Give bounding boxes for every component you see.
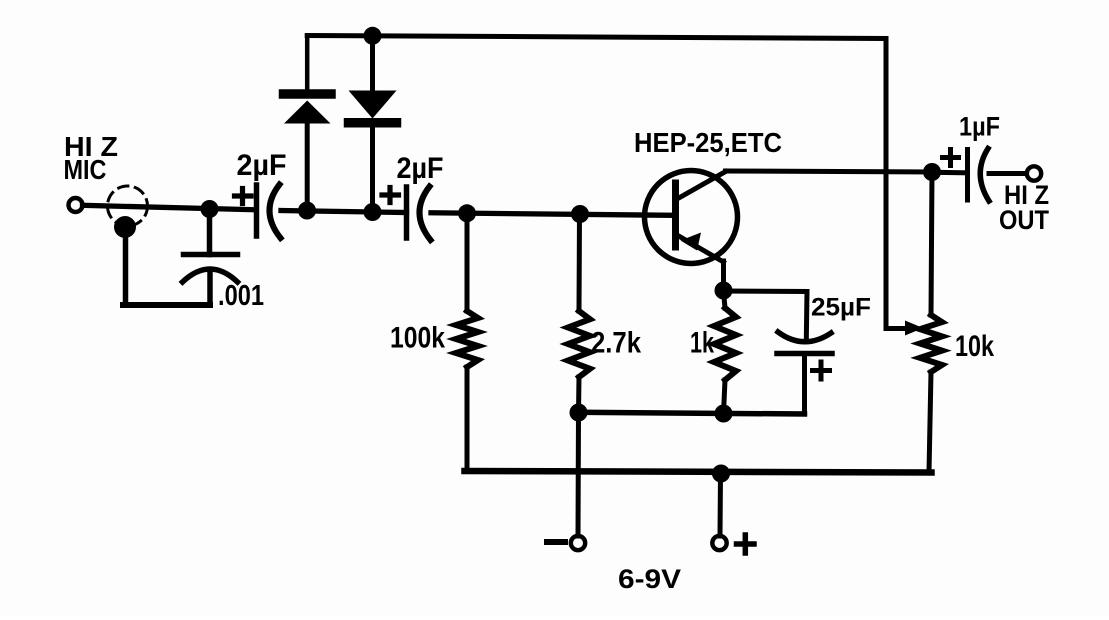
- wire: diode D1 anode lead: [305, 122, 310, 210]
- wire: C1 to C3 through diode nodes: [281, 211, 407, 213]
- label minus sign: [547, 539, 565, 545]
- wire: node F down to pot top: [931, 172, 932, 315]
- transistor Q1 base bar: [672, 183, 679, 247]
- wire: node F to C5: [932, 170, 968, 176]
- wire: node H2 down to minus terminal: [576, 413, 582, 536]
- capacitor C4 (25uF) straight plate: [777, 351, 832, 357]
- node F junction dot (collector output): [923, 163, 941, 181]
- polarity + of C3: [382, 188, 399, 203]
- svg-text:OUT: OUT: [999, 205, 1049, 235]
- node: HI Z OUT terminal: [1027, 166, 1041, 180]
- potentiometer R4 (10k) zigzag body: [920, 315, 942, 372]
- wire: node I down to plus terminal: [718, 474, 724, 537]
- svg-text:10k: 10k: [955, 330, 994, 363]
- svg-text:HEP-25,ETC: HEP-25,ETC: [634, 127, 782, 158]
- resistor R1 (100k) lower lead: [465, 367, 470, 469]
- polarity + of C1: [235, 189, 252, 204]
- svg-text:100k: 100k: [390, 322, 445, 355]
- capacitor C1 (2uF) straight plate: [254, 185, 260, 236]
- resistor R1 (100k) upper lead: [465, 214, 470, 311]
- capacitor C4 (25uF) curved plate: [778, 332, 831, 342]
- wire: mid bus: [579, 412, 805, 414]
- node: battery minus terminal: [571, 536, 585, 550]
- node: HI Z MIC input terminal: [69, 198, 83, 212]
- transistor Q1 collector stroke: [677, 172, 726, 200]
- svg-text:25µF: 25µF: [811, 294, 871, 322]
- microphone element (dashed circle): [108, 186, 148, 226]
- wire: mic dot down to ground return: [123, 227, 129, 305]
- potentiometer R4 lower lead: [929, 372, 931, 472]
- capacitor C2 (.001) top plate: [184, 252, 238, 258]
- svg-text:1µF: 1µF: [959, 112, 1000, 142]
- node T junction dot on top rail: [364, 27, 382, 45]
- wire: D1 cathode up to top rail corner: [305, 36, 310, 90]
- diode D2 triangle (pointing down): [349, 91, 397, 119]
- diode D2 cathode bar: [349, 118, 397, 128]
- svg-text:2µF: 2µF: [397, 152, 444, 185]
- node G (emitter) junction dot: [715, 282, 733, 300]
- polarity + of C5: [943, 150, 959, 166]
- wire: diode D2 anode lead from rail: [370, 36, 375, 92]
- capacitor C5 (1uF) straight plate: [965, 150, 970, 201]
- wire: top rail: [307, 36, 911, 329]
- resistor R2 (2.7k) upper lead: [577, 214, 583, 311]
- wire: D2 cathode down to node C: [370, 127, 375, 211]
- resistor R2 (2.7k) zigzag body: [568, 311, 590, 377]
- capacitor C2 (.001) curved plate: [183, 269, 238, 282]
- node A junction dot: [201, 200, 219, 218]
- resistor R3 (1k) lower lead: [724, 380, 726, 414]
- resistor R3 (1k) zigzag body: [714, 308, 736, 380]
- node: battery plus terminal: [712, 536, 726, 550]
- node C junction dot: [364, 203, 382, 221]
- diode D1 cathode bar: [284, 89, 332, 99]
- svg-text:.001: .001: [218, 280, 264, 312]
- node H junction dot (1k bottom): [715, 405, 733, 423]
- transistor Q1 emitter arrow (PNP, pointing in): [681, 233, 702, 251]
- wire: collector to node F: [726, 171, 933, 172]
- svg-text:2.7k: 2.7k: [591, 327, 641, 360]
- resistor R3 (1k) upper lead: [724, 291, 726, 308]
- transistor Q1 emitter stroke: [677, 235, 724, 262]
- svg-text:2µF: 2µF: [237, 149, 287, 182]
- node B junction dot: [298, 202, 316, 220]
- potentiometer R4 wiper arrow: [905, 321, 923, 336]
- capacitor C1 (2uF) curved plate: [269, 185, 280, 239]
- wire: C5 to output terminal: [989, 171, 1027, 176]
- transistor Q1 circle: [645, 171, 738, 264]
- node D junction dot: [458, 204, 476, 222]
- wire: node A down to C2: [207, 209, 213, 255]
- label plus sign: [737, 535, 755, 553]
- capacitor C3 (2uF) straight plate: [404, 187, 410, 238]
- wire: lower bus: [465, 471, 932, 473]
- polarity + of C4: [813, 362, 830, 379]
- diode D1 triangle (pointing up): [284, 101, 331, 124]
- wire: C3 to transistor base: [431, 213, 672, 216]
- svg-text:1k: 1k: [690, 327, 714, 360]
- node H2 junction dot (2.7k bottom): [570, 404, 588, 422]
- resistor R2 (2.7k) lower lead to node H2: [576, 377, 582, 413]
- svg-text:MIC: MIC: [64, 154, 107, 185]
- wire: input terminal to C1: [83, 205, 257, 210]
- wire: node G to C4 top: [724, 291, 808, 340]
- wire: emitter bend down to node G: [721, 261, 726, 291]
- resistor R1 (100k) zigzag body: [456, 311, 478, 367]
- node I junction dot on lower bus: [712, 465, 730, 483]
- wire: mic return bottom horizontal: [123, 302, 210, 308]
- node: mic shield junction dot: [114, 216, 136, 238]
- capacitor C5 (1uF) curved plate: [980, 149, 989, 202]
- wire: C4 bottom to mid bus: [802, 354, 807, 414]
- wire: C2 curved plate to bottom return: [207, 272, 213, 305]
- capacitor C3 (2uF) curved plate: [419, 187, 430, 241]
- svg-text:6-9V: 6-9V: [618, 564, 681, 594]
- node E junction dot: [571, 205, 589, 223]
